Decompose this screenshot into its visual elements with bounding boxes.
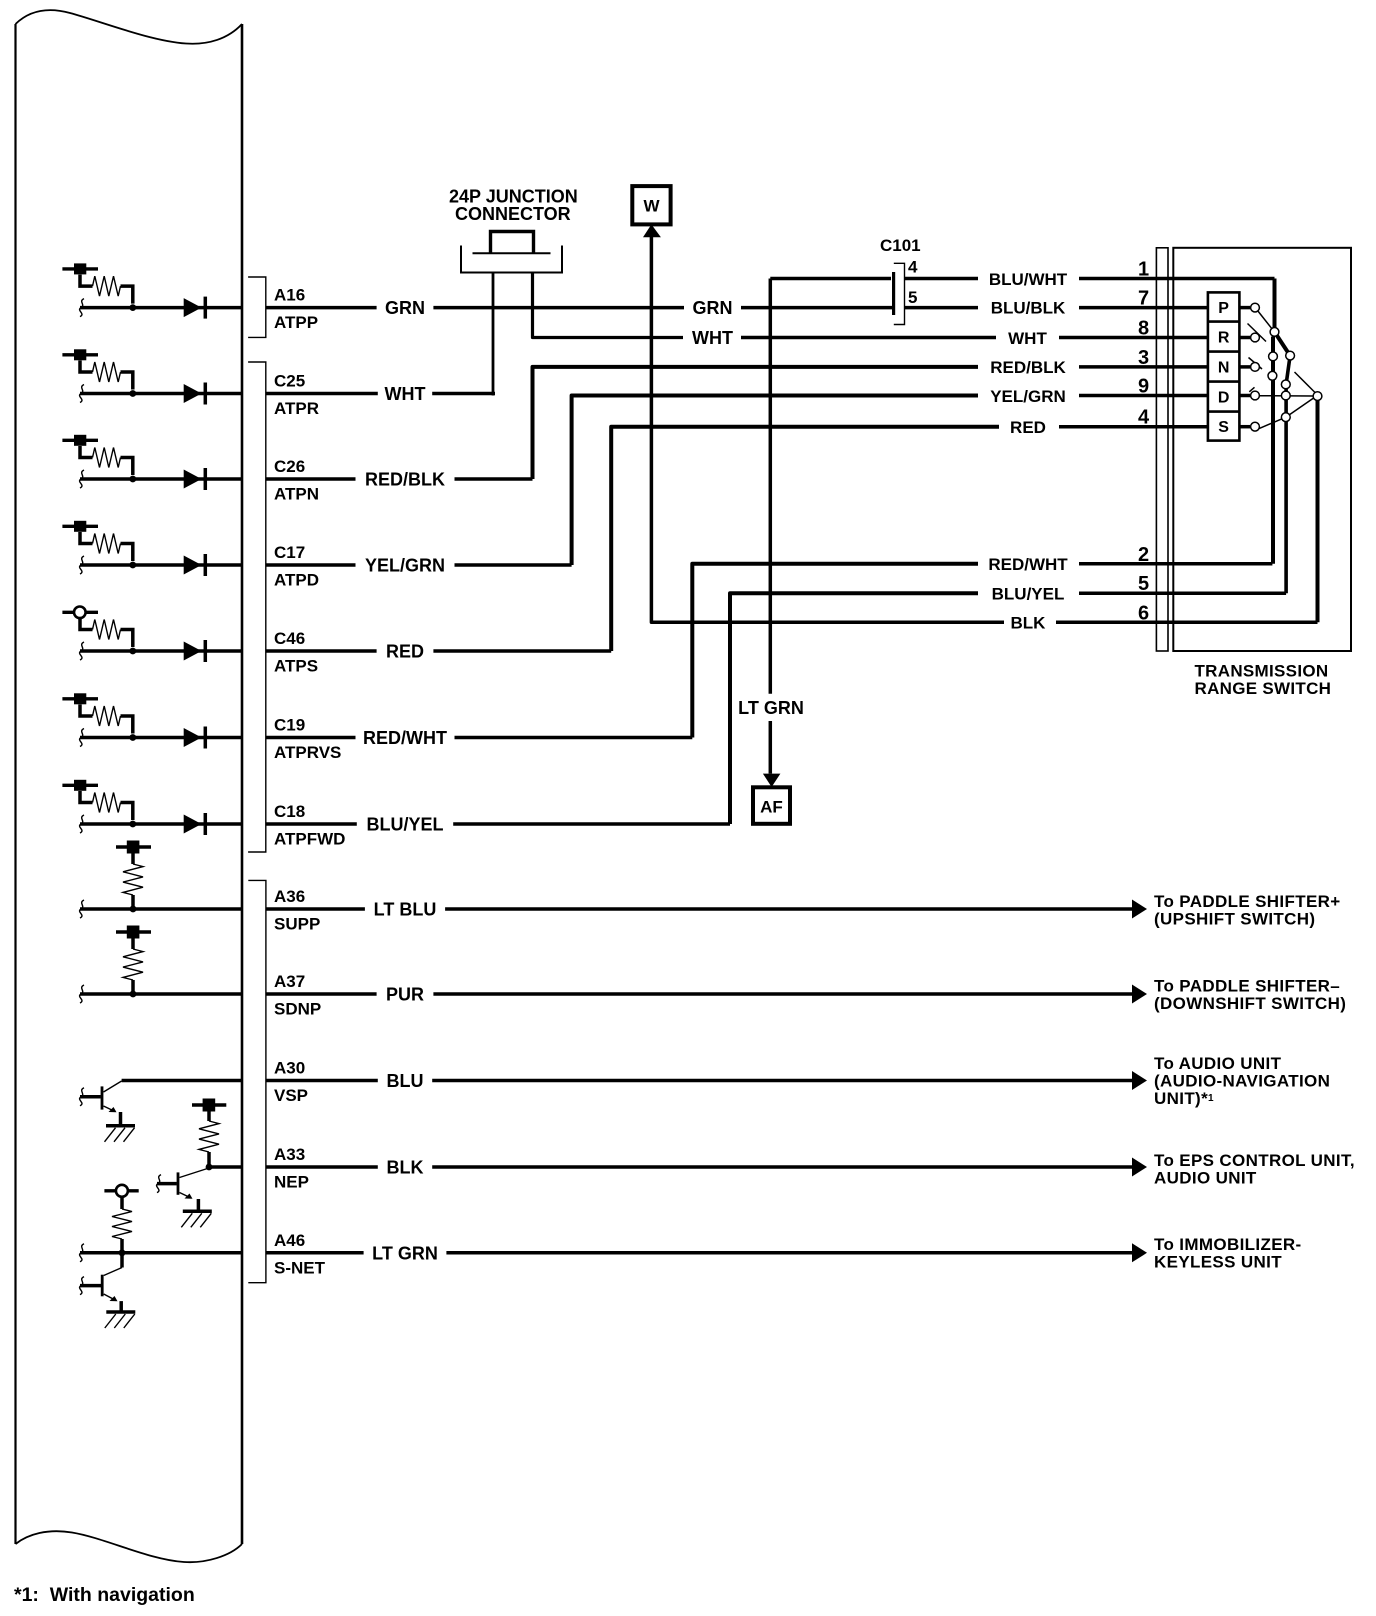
node SUPP junction	[130, 906, 137, 913]
ground (NEP emitter)	[181, 1211, 212, 1227]
wire SDNP row	[80, 985, 241, 1003]
bus label BLU/BLK	[991, 299, 1066, 318]
wire A36 label segment	[266, 907, 365, 911]
node ATPS junction	[129, 648, 136, 655]
svg-text:RED/BLK: RED/BLK	[990, 358, 1066, 377]
connector bracket A36..A46	[248, 880, 266, 1282]
pull-up network ATPRVS: power tap	[62, 693, 98, 704]
wire C25 label segment	[266, 392, 378, 396]
wire color label PUR (A37)	[386, 985, 424, 1005]
wire A30 to destination	[432, 1079, 1132, 1083]
transmission range switch connector strip	[1156, 248, 1168, 651]
wire color label GRN (A16)	[385, 298, 425, 318]
net name ATPR	[274, 399, 319, 418]
wire pin1 drop to P contact arm	[1273, 279, 1277, 329]
resistor NEP pull-up	[199, 1112, 219, 1170]
resistor ATPRVS pull-up	[80, 705, 133, 734]
bus WHT (junction to pin 8)	[741, 336, 1208, 340]
switch pin 4	[1138, 407, 1150, 429]
svg-text:UNIT)*1: UNIT)*1	[1154, 1089, 1214, 1108]
contact stub N	[1239, 365, 1250, 369]
bus label RED	[1010, 418, 1046, 437]
net name SDNP	[274, 1000, 321, 1019]
wire S-NET row	[80, 1244, 241, 1262]
wire color label WHT (bus)	[1008, 329, 1047, 348]
wire ATPS row	[80, 642, 241, 660]
switch arm D (closed to common)	[1260, 395, 1313, 397]
transmission range switch body	[1173, 248, 1351, 651]
pin label C26	[274, 457, 305, 476]
wire color label WHT (mid)	[692, 328, 733, 348]
svg-text:To IMMOBILIZER-: To IMMOBILIZER-	[1154, 1235, 1302, 1254]
switch position label R	[1218, 330, 1230, 347]
net name ATPP	[274, 313, 318, 332]
diode D-ATPR	[184, 383, 206, 405]
diode D-ATPRVS	[184, 727, 206, 749]
label: To PADDLE SHIFTER+ (UPSHIFT SWITCH)	[1154, 892, 1341, 929]
svg-text:WHT: WHT	[1008, 329, 1047, 348]
transistor Q-SNET	[80, 1253, 122, 1311]
svg-text:WHT: WHT	[692, 328, 733, 348]
net name ATPS	[274, 657, 318, 676]
transmission range switch caption	[1195, 662, 1332, 699]
ECU body torn bottom edge	[16, 1531, 243, 1562]
node S-NET junction	[119, 1249, 126, 1256]
pin label A33	[274, 1145, 305, 1164]
wire YEL/GRN riser	[572, 396, 1208, 566]
resistor S-NET pull-up	[112, 1197, 132, 1255]
svg-text:AUDIO UNIT: AUDIO UNIT	[1154, 1169, 1257, 1188]
pin label C19	[274, 716, 305, 735]
wire ATPN row	[80, 470, 241, 488]
wire A36 to destination	[445, 907, 1132, 911]
wire C17 to destination	[455, 563, 572, 567]
C101 pin 5 label	[908, 288, 917, 307]
connector bracket C25..C18	[248, 362, 266, 852]
node NEP junction	[206, 1164, 213, 1171]
arrow to EPS control unit	[1132, 1158, 1147, 1177]
junction connector right pin wire (WHT feed)	[533, 273, 684, 338]
switch pin 7	[1138, 288, 1149, 310]
net name ATPD	[274, 571, 319, 590]
pull-up network ATPFWD: power tap	[62, 780, 98, 791]
wire A37 label segment	[266, 992, 377, 996]
svg-text:4: 4	[1138, 407, 1150, 429]
diode D-ATPN	[184, 468, 206, 490]
svg-text:R: R	[1218, 330, 1230, 347]
node ATPP junction	[129, 304, 136, 311]
wire LT GRN vertical	[769, 279, 773, 774]
wire color label BLU (A30)	[387, 1071, 424, 1091]
diode D-ATPS	[184, 640, 206, 662]
diode D-ATPD	[184, 554, 206, 576]
svg-text:6: 6	[1138, 602, 1149, 624]
arrow to paddle shifter -	[1132, 985, 1147, 1004]
switch pin 9	[1138, 376, 1149, 398]
wire color label RED (C46)	[386, 642, 424, 662]
svg-text:C17: C17	[274, 543, 305, 562]
wire C25 to destination	[432, 392, 495, 396]
arrow to immobilizer	[1132, 1243, 1147, 1262]
pull-up network SDNP: power tap	[116, 926, 151, 939]
wire A46 label segment	[266, 1251, 364, 1255]
bus label YEL/GRN	[990, 387, 1066, 406]
svg-text:8: 8	[1138, 318, 1149, 340]
bus BLU/WHT (C101 pin4 to switch pin1)	[770, 277, 1274, 281]
switch contact circles	[1251, 303, 1322, 431]
svg-text:3: 3	[1138, 347, 1149, 369]
svg-text:A16: A16	[274, 286, 305, 305]
switch pin 8	[1138, 318, 1149, 340]
svg-text:ATPD: ATPD	[274, 571, 319, 590]
label: To IMMOBILIZER-KEYLESS UNIT	[1154, 1235, 1302, 1272]
svg-text:LT BLU: LT BLU	[374, 900, 437, 920]
svg-text:A46: A46	[274, 1231, 305, 1250]
contact stub P	[1239, 306, 1250, 310]
node ATPRVS junction	[129, 734, 136, 741]
wire C17 label segment	[266, 563, 356, 567]
wire RED/BLK riser	[533, 367, 1208, 479]
svg-text:A30: A30	[274, 1059, 305, 1078]
svg-text:NEP: NEP	[274, 1173, 309, 1192]
wire A30 label segment	[266, 1079, 378, 1083]
diode D-ATPP	[184, 297, 206, 319]
svg-text:C25: C25	[274, 372, 305, 391]
arrow to paddle shifter +	[1132, 900, 1147, 919]
pull-up network NEP: power tap	[192, 1099, 226, 1112]
contact stub S	[1239, 425, 1250, 429]
wire SUPP row	[80, 900, 241, 918]
wire RED/WHT riser	[692, 564, 1272, 738]
pull-up network ATPP: power tap	[62, 263, 98, 274]
arrow up into W	[643, 224, 661, 237]
svg-text:To PADDLE SHIFTER–: To PADDLE SHIFTER–	[1154, 977, 1340, 996]
bus label BLU/YEL	[992, 585, 1065, 604]
svg-text:BLU/WHT: BLU/WHT	[989, 270, 1068, 289]
wire color label YEL/GRN (C17)	[365, 556, 445, 576]
switch position label S	[1218, 419, 1229, 436]
svg-text:RED/WHT: RED/WHT	[363, 728, 447, 748]
wire color label RED/WHT (C19)	[363, 728, 447, 748]
contact stub R	[1239, 336, 1250, 340]
switch position label N	[1218, 360, 1230, 377]
net name ATPFWD	[274, 830, 345, 849]
svg-text:*1: With navigation: *1: With navigation	[14, 1584, 195, 1606]
svg-text:RED: RED	[386, 642, 424, 662]
net name SUPP	[274, 915, 320, 934]
switch arm N (open)	[1249, 358, 1263, 370]
svg-text:GRN: GRN	[385, 298, 425, 318]
svg-text:5: 5	[1138, 573, 1149, 595]
svg-text:To EPS CONTROL UNIT,: To EPS CONTROL UNIT,	[1154, 1151, 1355, 1170]
ground (S-NET emitter)	[105, 1312, 136, 1328]
pin label A46	[274, 1231, 305, 1250]
svg-text:KEYLESS UNIT: KEYLESS UNIT	[1154, 1253, 1282, 1272]
resistor SUPP pull-up	[123, 854, 143, 912]
svg-text:ATPP: ATPP	[274, 313, 318, 332]
svg-text:GRN: GRN	[693, 298, 733, 318]
svg-text:ATPR: ATPR	[274, 399, 319, 418]
wire color label BLK (A33)	[387, 1158, 424, 1178]
arrow down into AF	[763, 774, 781, 787]
svg-text:ATPFWD: ATPFWD	[274, 830, 345, 849]
junction connector left pin wire	[492, 273, 495, 396]
wire ATPR row	[80, 385, 241, 403]
wire A33 label segment	[266, 1165, 378, 1169]
switch position label P	[1218, 300, 1229, 317]
svg-text:ATPN: ATPN	[274, 485, 319, 504]
connector C101 label	[880, 236, 921, 255]
svg-text:CONNECTOR: CONNECTOR	[455, 204, 571, 224]
wire color label WHT (C25)	[385, 384, 426, 404]
svg-text:BLK: BLK	[1011, 614, 1047, 633]
svg-text:S-NET: S-NET	[274, 1258, 326, 1277]
24P junction connector symbol	[461, 232, 562, 273]
resistor ATPR pull-up	[80, 361, 133, 390]
wire ATPFWD row	[80, 815, 241, 833]
wire arm link (thick diagonal)	[1275, 332, 1291, 356]
svg-text:SUPP: SUPP	[274, 915, 320, 934]
svg-text:LT GRN: LT GRN	[372, 1243, 438, 1263]
wire W vertical (BLK)	[651, 237, 1004, 622]
pin label A37	[274, 972, 305, 991]
wire C26 to destination	[455, 477, 533, 481]
wire A16 label segment	[266, 306, 377, 310]
wire color label BLU/YEL (C18)	[366, 815, 443, 835]
switch arm S (toward common)	[1259, 398, 1315, 429]
svg-text:RED/WHT: RED/WHT	[988, 555, 1068, 574]
switch pin 3	[1138, 347, 1149, 369]
wire BLU/YEL riser	[730, 593, 1286, 824]
wire ATPP row	[80, 299, 241, 317]
wire ATPRVS row	[80, 729, 241, 747]
wire C18 label segment	[266, 822, 357, 826]
label: To AUDIO UNIT (AUDIO-NAVIGATION UNIT)*1	[1154, 1054, 1330, 1108]
svg-text:P: P	[1218, 300, 1229, 317]
note: *1 With navigation	[14, 1584, 195, 1606]
pin label C17	[274, 543, 305, 562]
svg-text:LT GRN: LT GRN	[738, 698, 804, 718]
resistor ATPN pull-up	[80, 446, 133, 475]
connector C101 symbol	[892, 263, 905, 324]
bus label RED/BLK	[990, 358, 1066, 377]
switch position label D	[1218, 390, 1230, 407]
svg-text:ATPS: ATPS	[274, 657, 318, 676]
svg-text:(AUDIO-NAVIGATION: (AUDIO-NAVIGATION	[1154, 1072, 1330, 1091]
node ATPFWD junction	[129, 821, 136, 828]
label: To EPS CONTROL UNIT, AUDIO UNIT	[1154, 1151, 1355, 1188]
ECU body right edge	[241, 24, 244, 1544]
net name VSP	[274, 1086, 308, 1105]
switch arm P (closed to pin1)	[1258, 311, 1273, 330]
wire C18 to destination	[453, 822, 730, 826]
switch arm from common (upper)	[1295, 372, 1316, 393]
svg-text:VSP: VSP	[274, 1086, 308, 1105]
node ATPR junction	[129, 390, 136, 397]
svg-text:2: 2	[1138, 544, 1149, 566]
wire A37 to destination	[433, 992, 1132, 996]
pin label C46	[274, 629, 305, 648]
svg-text:C46: C46	[274, 629, 305, 648]
wire color label RED/BLK (C26)	[365, 470, 445, 490]
pull-up network ATPS: power tap	[62, 607, 98, 619]
svg-text:W: W	[643, 197, 660, 216]
pull-up network ATPR: power tap	[62, 349, 98, 360]
svg-text:A33: A33	[274, 1145, 305, 1164]
resistor ATPP pull-up	[80, 275, 133, 304]
svg-text:N: N	[1218, 360, 1230, 377]
pin label A16	[274, 286, 305, 305]
svg-text:BLU/YEL: BLU/YEL	[366, 815, 443, 835]
pin label C25	[274, 372, 305, 391]
net name NEP	[274, 1173, 309, 1192]
ECU body left edge	[14, 24, 16, 1544]
svg-text:5: 5	[908, 288, 917, 307]
resistor SDNP pull-up	[123, 939, 143, 997]
wire VSP row	[122, 1079, 241, 1083]
svg-text:BLU: BLU	[387, 1071, 424, 1091]
wire NEP row	[209, 1165, 241, 1169]
svg-text:AF: AF	[760, 798, 783, 817]
connector box AF	[753, 787, 790, 824]
svg-text:BLU/BLK: BLU/BLK	[991, 299, 1066, 318]
svg-text:1: 1	[1138, 259, 1149, 281]
switch pin 1	[1138, 259, 1149, 281]
wire C26 label segment	[266, 477, 356, 481]
PRNDS position boxes	[1208, 292, 1240, 440]
pull-up network SUPP: power tap	[116, 841, 151, 854]
24P junction connector label	[449, 187, 578, 225]
resistor ATPFWD pull-up	[80, 791, 133, 820]
net name ATPRVS	[274, 743, 341, 762]
svg-text:C19: C19	[274, 716, 305, 735]
wire C19 label segment	[266, 736, 356, 740]
node ATPN junction	[129, 476, 136, 483]
svg-text:RED/BLK: RED/BLK	[365, 470, 445, 490]
node ATPD junction	[129, 562, 136, 569]
bus label BLU/WHT	[989, 270, 1068, 289]
wire C19 to destination	[455, 736, 693, 740]
svg-text:ATPRVS: ATPRVS	[274, 743, 341, 762]
switch arm tick near D	[1249, 387, 1254, 392]
connector box W	[632, 186, 670, 224]
net name S-NET	[274, 1258, 326, 1277]
svg-text:SDNP: SDNP	[274, 1000, 321, 1019]
svg-text:D: D	[1218, 390, 1230, 407]
resistor ATPS pull-up	[80, 618, 133, 647]
wire pin5 riser inside switch	[1286, 356, 1290, 594]
wire color label LT BLU (A36)	[374, 900, 437, 920]
svg-text:C101: C101	[880, 236, 921, 255]
svg-text:To PADDLE SHIFTER+: To PADDLE SHIFTER+	[1154, 892, 1341, 911]
wire C46 to destination	[433, 649, 611, 653]
svg-text:RANGE SWITCH: RANGE SWITCH	[1195, 679, 1332, 698]
switch pin 2	[1138, 544, 1149, 566]
bus BLK right part	[1056, 621, 1318, 625]
wire RED riser	[611, 427, 1208, 651]
switch arm R (open)	[1248, 324, 1267, 342]
svg-text:S: S	[1218, 419, 1229, 436]
connector bracket A16	[248, 277, 266, 337]
wire A33 to destination	[432, 1165, 1132, 1169]
svg-text:(UPSHIFT SWITCH): (UPSHIFT SWITCH)	[1154, 910, 1315, 929]
wire C46 label segment	[266, 649, 377, 653]
wire color label GRN (mid)	[693, 298, 733, 318]
svg-text:To AUDIO UNIT: To AUDIO UNIT	[1154, 1054, 1282, 1073]
wire A16 to destination	[433, 306, 893, 310]
pin label A30	[274, 1059, 305, 1078]
resistor ATPD pull-up	[80, 532, 133, 561]
svg-text:C18: C18	[274, 802, 305, 821]
contact stub D	[1239, 394, 1250, 398]
svg-text:C26: C26	[274, 457, 305, 476]
wire ATPD row	[80, 556, 241, 574]
node SDNP junction	[130, 991, 137, 998]
svg-text:RED: RED	[1010, 418, 1046, 437]
svg-text:PUR: PUR	[386, 985, 424, 1005]
transistor Q-NEP	[157, 1168, 209, 1211]
wire pin6 riser inside switch	[1316, 396, 1320, 622]
bus label RED/WHT	[988, 555, 1068, 574]
transistor Q-VSP	[80, 1081, 122, 1126]
wire pin2 riser inside switch	[1271, 337, 1275, 564]
svg-text:YEL/GRN: YEL/GRN	[365, 556, 445, 576]
ECU body torn top edge	[16, 10, 243, 44]
switch pin 6	[1138, 602, 1149, 624]
label: To PADDLE SHIFTER- (DOWNSHIFT SWITCH)	[1154, 977, 1346, 1014]
arrow to audio unit	[1132, 1071, 1147, 1090]
svg-text:YEL/GRN: YEL/GRN	[990, 387, 1066, 406]
svg-text:7: 7	[1138, 288, 1149, 310]
svg-text:A37: A37	[274, 972, 305, 991]
switch pin 5	[1138, 573, 1149, 595]
svg-text:A36: A36	[274, 887, 305, 906]
wire color label LT GRN (AF branch)	[738, 698, 804, 718]
ground (VSP emitter)	[105, 1126, 136, 1142]
C101 pin 4 label	[908, 258, 918, 277]
svg-text:BLU/YEL: BLU/YEL	[992, 585, 1065, 604]
pull-up network ATPD: power tap	[62, 521, 98, 532]
wire A46 to destination	[446, 1251, 1132, 1255]
diode D-ATPFWD	[184, 813, 206, 835]
svg-text:WHT: WHT	[385, 384, 426, 404]
pin label C18	[274, 802, 305, 821]
pull-up network S-NET: power tap	[104, 1185, 138, 1197]
svg-text:9: 9	[1138, 376, 1149, 398]
net name ATPN	[274, 485, 319, 504]
bus label BLK	[1011, 614, 1047, 633]
pull-up network ATPN: power tap	[62, 435, 98, 446]
svg-text:4: 4	[908, 258, 918, 277]
svg-text:(DOWNSHIFT SWITCH): (DOWNSHIFT SWITCH)	[1154, 994, 1346, 1013]
svg-text:BLK: BLK	[387, 1158, 424, 1178]
svg-text:TRANSMISSION: TRANSMISSION	[1195, 662, 1329, 681]
bus BLU/BLK (C101 pin5 to switch pin7)	[905, 306, 1208, 310]
pin label A36	[274, 887, 305, 906]
wire color label LT GRN (A46)	[372, 1243, 438, 1263]
